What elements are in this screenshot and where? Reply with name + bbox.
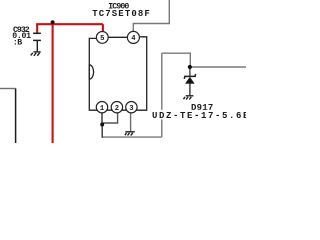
svg-text:5: 5 <box>100 35 104 43</box>
wire: output net to right edge <box>190 66 246 68</box>
red wire: drop to pin 5 <box>102 24 104 31</box>
pin 1 circle <box>96 102 107 113</box>
svg-text:1: 1 <box>100 105 105 113</box>
zener diode D917: lead down to ground <box>189 84 191 96</box>
svg-text:TC7SET08F: TC7SET08F <box>92 9 151 19</box>
wire: pin4 net riser, horizontal run, and riser to top edge <box>133 0 169 31</box>
wire: left L-wire horizontal from left edge <box>0 88 16 90</box>
zener diode D917: anode triangle pointing up <box>185 77 194 83</box>
IC body outline (left, bottom, right edges with top corner stubs) <box>89 37 146 110</box>
ground under C932 <box>31 52 41 56</box>
wire: bottom run from pins 1,2 junction to riser under label <box>102 136 162 138</box>
wire: zener net top horizontal and drop to diode junction <box>162 53 191 67</box>
capacitor C932 lower lead <box>36 40 38 51</box>
red wire: top horizontal <box>36 23 103 25</box>
svg-text:UDZ-TE-17-5.6B: UDZ-TE-17-5.6B <box>152 111 246 121</box>
wire: left L-wire vertical down to bottom edge <box>15 89 17 144</box>
IC notch (index bump on left edge) <box>89 65 93 79</box>
pin 2 circle <box>111 102 122 113</box>
label UDZ-TE-17-5.6B white backing box <box>151 110 247 120</box>
svg-text:2: 2 <box>115 105 119 113</box>
zener diode D917: cathode lead from junction down to bar <box>189 67 191 76</box>
junction dot at zener top <box>188 65 192 69</box>
capacitor C932 red stub <box>36 24 38 33</box>
svg-text:3: 3 <box>129 105 133 113</box>
pin 4 circle <box>127 31 139 43</box>
zener diode D917: bar with bent ends <box>184 74 195 79</box>
pin 5 circle <box>96 32 108 44</box>
IC top edge segment between pin5 and pin4 <box>102 36 133 38</box>
red wire: main vertical to bottom edge <box>52 24 54 143</box>
ground under pin 3 <box>125 132 135 136</box>
ground under zener <box>184 96 194 100</box>
junction dot pins 1-2 <box>100 123 104 127</box>
wire: drop from junction dot <box>101 125 103 138</box>
svg-text:4: 4 <box>131 35 136 43</box>
wire: pin2 lead and tie bar to pin1 <box>102 108 117 123</box>
wire: pin3 lead down to ground <box>130 108 132 131</box>
svg-text::B: :B <box>13 38 22 47</box>
capacitor C932 bottom plate <box>33 39 41 41</box>
pin 3 circle <box>126 102 137 113</box>
junction dot at red tee <box>51 20 55 24</box>
wire: zener net vertical from corner down behind label to bottom wire corner <box>161 53 163 137</box>
capacitor C932 top plate <box>33 32 41 34</box>
wire: pin1 lead <box>101 108 103 125</box>
